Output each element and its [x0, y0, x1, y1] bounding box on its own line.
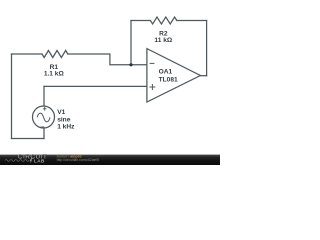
wire: feedback left vertical	[130, 21, 132, 65]
V1 minus sign	[40, 126, 44, 128]
svg-text:http://circuitlab.com/c62atef5: http://circuitlab.com/c62atef5	[57, 158, 100, 162]
voltage source V1 circle	[33, 106, 55, 128]
op-amp plus input symbol	[149, 84, 155, 90]
footer bar	[0, 155, 220, 165]
V1 plus sign	[43, 107, 47, 111]
svg-text:1 kHz: 1 kHz	[57, 124, 75, 131]
wire: non-inverting input (+) horizontal	[44, 85, 147, 87]
svg-text:V1: V1	[57, 109, 65, 116]
wire: feedback top left segment to R2	[131, 20, 150, 22]
wire: feedback right vertical	[206, 21, 208, 76]
svg-text:1.1 kΩ: 1.1 kΩ	[44, 70, 65, 77]
wire: R1 right lead with step down to inverting node	[68, 54, 131, 65]
V1 sine symbol	[37, 113, 50, 122]
svg-text:sine: sine	[57, 116, 71, 123]
resistor R1	[42, 51, 68, 58]
wire: V1 bottom stub	[43, 128, 45, 138]
svg-text:OA1: OA1	[159, 69, 173, 76]
svg-text:LAB: LAB	[34, 158, 45, 164]
wire: V1 top stub	[43, 86, 45, 106]
wire: R1 left lead to left rail	[12, 53, 43, 55]
wire: op-amp output lead	[200, 75, 206, 77]
wire: inverting node to op-amp minus input	[131, 64, 147, 66]
svg-text:TL081: TL081	[159, 76, 178, 83]
footer logo bolt	[30, 158, 33, 163]
junction node at inverting input	[129, 63, 132, 66]
wire: bottom horizontal	[12, 138, 45, 140]
wire: R2 right lead	[177, 20, 207, 22]
resistor R2	[150, 17, 176, 24]
footer logo waveform	[5, 160, 29, 162]
wire: left rail vertical	[11, 54, 13, 139]
svg-text:11 kΩ: 11 kΩ	[154, 37, 172, 44]
op-amp OA1 triangle	[147, 49, 201, 102]
op-amp minus input symbol	[150, 62, 155, 64]
